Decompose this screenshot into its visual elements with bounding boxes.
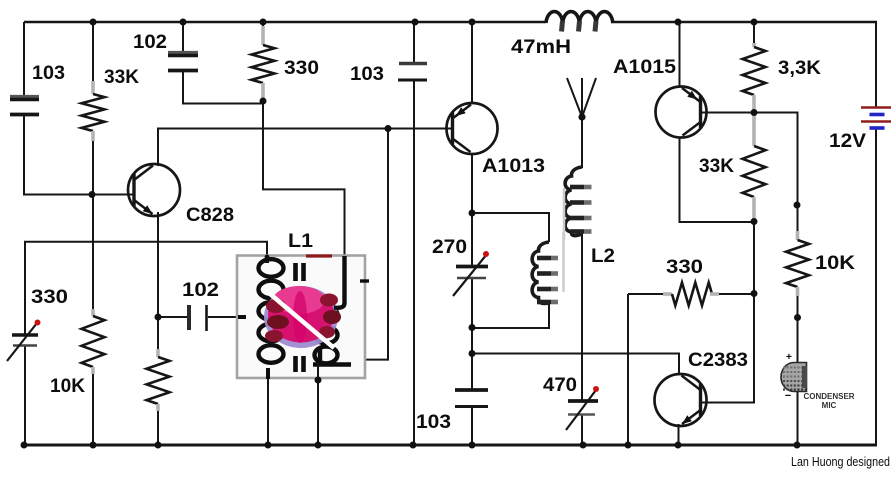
svg-text:103: 103 xyxy=(32,63,65,84)
svg-text:33K: 33K xyxy=(104,67,139,88)
svg-text:A1015: A1015 xyxy=(613,57,676,78)
svg-text:+: + xyxy=(786,351,792,363)
svg-text:330: 330 xyxy=(284,58,319,79)
svg-text:330: 330 xyxy=(31,287,68,308)
svg-text:3,3K: 3,3K xyxy=(778,58,821,79)
svg-text:12V: 12V xyxy=(829,131,866,152)
svg-text:102: 102 xyxy=(182,280,219,301)
svg-text:A1013: A1013 xyxy=(482,156,545,177)
svg-text:102: 102 xyxy=(133,32,167,53)
svg-text:CONDENSER: CONDENSER xyxy=(803,392,854,401)
svg-text:C2383: C2383 xyxy=(688,350,748,371)
svg-text:L1: L1 xyxy=(288,231,313,252)
svg-text:−: − xyxy=(785,390,791,402)
svg-text:470: 470 xyxy=(543,375,577,396)
svg-text:10K: 10K xyxy=(50,376,85,397)
svg-text:47mH: 47mH xyxy=(511,37,571,58)
svg-text:C828: C828 xyxy=(186,205,234,226)
svg-text:270: 270 xyxy=(432,237,467,258)
svg-text:10K: 10K xyxy=(815,253,855,274)
svg-text:103: 103 xyxy=(350,64,384,85)
svg-text:330: 330 xyxy=(666,257,703,278)
svg-text:Lan Huong designed: Lan Huong designed xyxy=(791,455,890,469)
svg-text:33K: 33K xyxy=(699,156,734,177)
svg-text:MIC: MIC xyxy=(822,401,837,410)
svg-text:L2: L2 xyxy=(591,246,615,267)
svg-text:103: 103 xyxy=(416,412,451,433)
